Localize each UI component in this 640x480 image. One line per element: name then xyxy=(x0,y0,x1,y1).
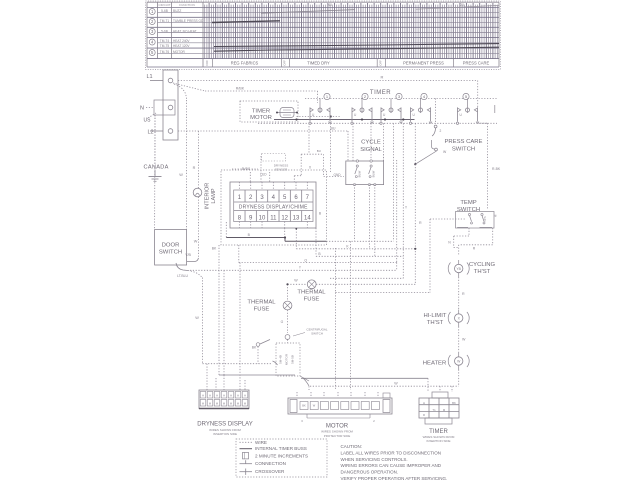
svg-text:H: H xyxy=(230,393,232,397)
svg-text:FUSE: FUSE xyxy=(254,307,270,313)
svg-text:5M-4B: 5M-4B xyxy=(279,355,283,364)
svg-text:L2: L2 xyxy=(148,130,154,136)
svg-text:BUZZ: BUZZ xyxy=(173,9,181,13)
svg-text:L1: L1 xyxy=(147,74,153,80)
svg-text:M: M xyxy=(237,401,239,405)
svg-text:BK: BK xyxy=(302,404,306,408)
svg-text:CYCLE: CYCLE xyxy=(361,140,381,146)
svg-text:2 MINUTE INCREMENTS: 2 MINUTE INCREMENTS xyxy=(255,453,308,458)
svg-text:LAMP: LAMP xyxy=(211,188,217,204)
svg-text:THERMAL: THERMAL xyxy=(297,289,326,295)
svg-text:BK: BK xyxy=(252,346,257,350)
svg-text:M: M xyxy=(209,401,211,405)
svg-text:LED: LED xyxy=(260,173,267,177)
svg-text:OFF: OFF xyxy=(378,60,382,66)
svg-text:M: M xyxy=(230,401,232,405)
svg-text:HI: HI xyxy=(494,214,498,217)
svg-text:CROSSOVER: CROSSOVER xyxy=(255,469,285,474)
svg-text:H: H xyxy=(244,393,246,397)
svg-text:DRYNESS DISPLAY/CHIME: DRYNESS DISPLAY/CHIME xyxy=(239,204,308,210)
svg-text:W: W xyxy=(462,338,466,342)
svg-text:HEATER: HEATER xyxy=(423,360,446,366)
svg-text:R: R xyxy=(423,413,425,417)
svg-text:R: R xyxy=(462,292,465,296)
svg-text:R-BK: R-BK xyxy=(492,167,501,171)
svg-text:M: M xyxy=(244,401,246,405)
svg-text:W: W xyxy=(179,173,183,177)
svg-text:20: 20 xyxy=(460,3,464,7)
svg-text:BU/W: BU/W xyxy=(371,170,375,177)
svg-text:R: R xyxy=(193,166,196,170)
svg-text:SWITCH: SWITCH xyxy=(311,332,323,336)
svg-text:CYCLING: CYCLING xyxy=(469,262,496,268)
svg-text:GND: GND xyxy=(334,173,342,177)
svg-text:M: M xyxy=(202,401,204,405)
svg-text:TIMER: TIMER xyxy=(370,90,391,96)
svg-text:HEAT 240V: HEAT 240V xyxy=(173,39,190,43)
svg-text:50'S: 50'S xyxy=(483,216,487,221)
svg-text:LABEL ALL WIRES PRIOR TO DISCO: LABEL ALL WIRES PRIOR TO DISCONNECTION xyxy=(341,450,442,455)
svg-text:DANGEROUS OPERATION.: DANGEROUS OPERATION. xyxy=(341,470,399,475)
svg-text:PRESS CARE: PRESS CARE xyxy=(445,139,483,145)
svg-text:TM-T4: TM-T4 xyxy=(160,39,170,43)
svg-text:CONNECTION: CONNECTION xyxy=(255,461,286,466)
svg-text:Y/B: Y/B xyxy=(185,253,191,257)
svg-text:PROTECTOR SIDE: PROTECTOR SIDE xyxy=(324,434,351,438)
svg-text:TIMER: TIMER xyxy=(252,109,270,115)
svg-text:WHEN SERVICING CONTROLS.: WHEN SERVICING CONTROLS. xyxy=(341,457,408,462)
svg-text:BU: BU xyxy=(331,126,336,130)
svg-text:SENSOR: SENSOR xyxy=(275,168,289,172)
svg-text:CIRCUIT: CIRCUIT xyxy=(158,3,170,7)
svg-text:H: H xyxy=(216,393,218,397)
svg-text:US: US xyxy=(144,118,152,124)
svg-text:HEAT 120V: HEAT 120V xyxy=(173,44,190,48)
svg-text:TM-T1: TM-T1 xyxy=(160,19,170,23)
svg-text:CANADA: CANADA xyxy=(144,165,169,171)
svg-text:W: W xyxy=(195,316,199,320)
svg-text:VERIFY PROPER OPERATION AFTER: VERIFY PROPER OPERATION AFTER SERVICING. xyxy=(341,476,448,480)
svg-text:REG FABRICS: REG FABRICS xyxy=(231,61,259,66)
svg-text:TIMED DRY: TIMED DRY xyxy=(307,61,330,66)
svg-text:INTERNAL TIMER BUSS: INTERNAL TIMER BUSS xyxy=(255,446,307,451)
svg-text:W: W xyxy=(194,240,198,244)
svg-text:H: H xyxy=(423,401,425,405)
svg-text:R: R xyxy=(381,75,384,80)
svg-text:MOTOR: MOTOR xyxy=(326,424,349,430)
svg-text:INSERTION SIDE: INSERTION SIDE xyxy=(213,432,237,436)
svg-text:M: M xyxy=(223,401,225,405)
svg-text:W: W xyxy=(394,382,398,386)
svg-text:H: H xyxy=(202,393,204,397)
svg-text:PRESS CARE: PRESS CARE xyxy=(463,61,490,66)
svg-text:TH'ST: TH'ST xyxy=(474,269,491,275)
svg-text:SWITCH: SWITCH xyxy=(457,207,480,213)
svg-text:TM-T5: TM-T5 xyxy=(160,44,170,48)
svg-text:H: H xyxy=(223,393,225,397)
svg-text:TEMP: TEMP xyxy=(460,200,476,206)
svg-text:OFF: OFF xyxy=(283,60,287,66)
svg-text:TM-T6: TM-T6 xyxy=(160,50,170,54)
svg-text:SIGNAL: SIGNAL xyxy=(360,147,382,153)
svg-text:R/BK: R/BK xyxy=(236,86,245,90)
svg-text:DRYNESS DISPLAY: DRYNESS DISPLAY xyxy=(197,422,252,428)
svg-text:MOTOR: MOTOR xyxy=(250,115,272,121)
svg-text:14: 14 xyxy=(304,215,311,221)
svg-text:WIRING ERRORS CAN CAUSE IMPROP: WIRING ERRORS CAN CAUSE IMPROPER AND xyxy=(341,463,442,468)
svg-text:11: 11 xyxy=(270,215,277,221)
svg-text:THERMAL: THERMAL xyxy=(247,300,276,306)
svg-text:G: G xyxy=(281,320,284,324)
svg-text:5M-5B: 5M-5B xyxy=(291,355,295,364)
svg-text:13: 13 xyxy=(293,215,300,221)
svg-text:LT.BLU: LT.BLU xyxy=(177,274,188,278)
svg-text:BK: BK xyxy=(212,247,217,251)
svg-text:YB: YB xyxy=(456,267,461,271)
svg-text:FUSE: FUSE xyxy=(304,296,320,302)
svg-text:PERMANENT PRESS: PERMANENT PRESS xyxy=(403,61,444,66)
svg-text:TUMBLE PRESS GD: TUMBLE PRESS GD xyxy=(173,19,204,23)
svg-text:T1: T1 xyxy=(432,408,436,412)
svg-text:Q: Q xyxy=(304,258,307,262)
svg-text:R: R xyxy=(419,221,422,225)
svg-text:5-6B: 5-6B xyxy=(161,9,168,13)
svg-text:N: N xyxy=(140,106,144,112)
svg-text:BU/W: BU/W xyxy=(358,170,362,177)
svg-text:SWITCH: SWITCH xyxy=(452,147,475,153)
svg-text:HI-LIMIT: HI-LIMIT xyxy=(424,313,447,319)
svg-text:SWITCH: SWITCH xyxy=(159,250,182,256)
svg-text:M: M xyxy=(216,401,218,405)
svg-text:DOOR: DOOR xyxy=(162,243,180,249)
svg-text:H: H xyxy=(209,393,211,397)
svg-text:10: 10 xyxy=(259,215,266,221)
svg-text:BK: BK xyxy=(452,401,456,405)
svg-text:TIMER: TIMER xyxy=(429,429,448,435)
svg-text:INTERIOR: INTERIOR xyxy=(205,183,211,210)
svg-text:INSERTION SIDE: INSERTION SIDE xyxy=(426,439,450,443)
svg-text:FUNCTION: FUNCTION xyxy=(179,3,195,7)
svg-text:5-6B: 5-6B xyxy=(161,29,168,33)
svg-text:CAUTION:: CAUTION: xyxy=(341,444,363,449)
svg-text:MOTOR: MOTOR xyxy=(173,50,186,54)
svg-text:TH'ST: TH'ST xyxy=(427,320,444,326)
svg-text:OFF: OFF xyxy=(205,60,209,66)
svg-text:2: 2 xyxy=(440,129,442,133)
svg-text:HEAT, NO HEAT: HEAT, NO HEAT xyxy=(173,29,197,33)
svg-text:MOTOR: MOTOR xyxy=(285,353,289,365)
svg-text:H: H xyxy=(237,393,239,397)
svg-text:12: 12 xyxy=(281,215,288,221)
svg-text:WIRE: WIRE xyxy=(255,440,267,445)
svg-text:W: W xyxy=(294,279,298,283)
svg-text:BU: BU xyxy=(317,149,321,153)
svg-text:40: 40 xyxy=(328,3,332,7)
